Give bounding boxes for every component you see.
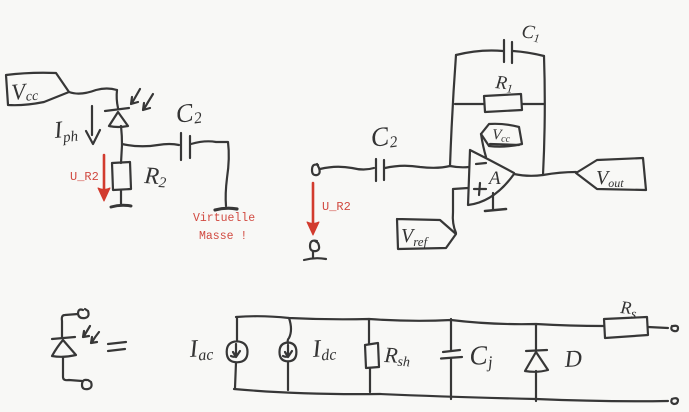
capacitor Cn [504, 21, 542, 63]
wire down to photodiode [117, 90, 118, 108]
resistor Rn [484, 72, 522, 112]
wire Cn to output node [513, 51, 544, 56]
current source Idc [280, 343, 297, 362]
svg-text:U_R2: U_R2 [322, 200, 351, 214]
svg-text:C2: C2 [174, 97, 203, 130]
capacitor C2 right [369, 120, 399, 181]
svg-text:Vout: Vout [596, 167, 624, 190]
wire Iac bottom [235, 363, 236, 389]
wire D top [535, 325, 537, 351]
capacitor Cj [441, 339, 494, 373]
red arrow U_R2 right [307, 183, 319, 235]
wire node to R2 [121, 145, 122, 163]
flag Vcc op-amp [481, 124, 522, 157]
capacitor C2 left [174, 97, 203, 160]
wire C2 to virtual ground [191, 141, 229, 206]
label Virtuelle Masse [193, 212, 255, 243]
feedback right vertical wire [543, 56, 545, 175]
wire Vcc to photodiode [69, 89, 117, 94]
resistor R2 [112, 162, 168, 192]
wire R2 to ground [120, 190, 122, 204]
flag Vout [576, 158, 646, 190]
svg-text:Virtuelle: Virtuelle [193, 212, 255, 225]
top rail wire [236, 316, 604, 326]
svg-text:Iac: Iac [188, 334, 214, 365]
wire Rsh top [368, 319, 370, 344]
wire Cj bottom [450, 359, 452, 399]
wire node to C2 [122, 144, 179, 146]
wire C2 to op-amp minus input [385, 166, 469, 168]
resistor Rsh [365, 342, 411, 370]
flag Vcc left [6, 73, 69, 106]
photodiode PD cathode bar [105, 108, 129, 111]
wire input to C2 right [320, 167, 374, 170]
svg-text:C1: C1 [520, 21, 542, 45]
terminal bottom right [671, 398, 678, 404]
svg-text:Rsh: Rsh [383, 342, 411, 370]
wire photodiode to node [121, 126, 122, 145]
ground below R2 [111, 205, 131, 207]
svg-text:Masse !: Masse ! [199, 230, 247, 243]
svg-text:D: D [563, 346, 583, 373]
wire Rn to output node [522, 103, 544, 105]
svg-text:Iph: Iph [52, 116, 79, 147]
svg-text:A: A [487, 168, 501, 189]
svg-text:R2: R2 [143, 163, 168, 192]
wire to Rn [455, 103, 484, 105]
diode D [525, 346, 583, 373]
wire Idc bottom [287, 362, 289, 391]
flag Vref [397, 219, 456, 249]
ground op-amp [485, 193, 506, 211]
input terminal right circuit [312, 164, 320, 175]
svg-text:Vcc: Vcc [10, 78, 39, 106]
resistor Rs [604, 297, 648, 338]
wire Rsh bottom [369, 368, 371, 392]
op-amp A [468, 150, 514, 205]
equals sign [108, 342, 126, 351]
bottom rail wire [234, 389, 668, 401]
svg-text:R1: R1 [493, 72, 514, 96]
svg-text:Vref: Vref [401, 225, 430, 249]
wire D bottom [535, 371, 537, 401]
photodiode bottom light arrows [83, 326, 99, 343]
wire op-amp output [514, 172, 576, 176]
wire Iac top [236, 317, 238, 341]
svg-text:Cj: Cj [468, 339, 493, 373]
current arrow Iph [86, 106, 100, 144]
svg-text:U_R2: U_R2 [70, 170, 99, 184]
current source Iac [227, 341, 248, 362]
photodiode PD triangle [109, 112, 128, 127]
wire Idc top [288, 318, 291, 343]
wire Vref to plus input [453, 188, 468, 233]
feedback left vertical wire [450, 55, 456, 166]
wire Cj top [450, 319, 452, 350]
terminal top right [671, 326, 678, 331]
svg-text:Vcc: Vcc [492, 127, 511, 145]
photodiode symbol bottom [52, 309, 92, 389]
red arrow U_R2 left [98, 155, 110, 201]
svg-text:Idc: Idc [311, 334, 337, 365]
wire Rs to terminal [648, 327, 668, 328]
svg-text:C2: C2 [369, 120, 399, 154]
terminal below red arrow [304, 241, 326, 260]
photodiode light arrows [131, 89, 153, 110]
ground virtual masse [215, 208, 237, 210]
wire to Cn [456, 51, 503, 56]
